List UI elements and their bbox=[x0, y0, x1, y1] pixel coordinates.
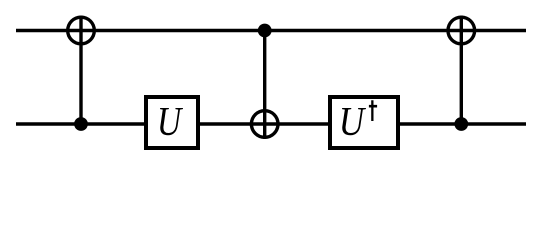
CNOT3 control dot (on q1) bbox=[454, 117, 468, 131]
gate U box bbox=[146, 97, 198, 148]
wire CNOT1 vertical connector bbox=[79, 16, 82, 124]
wire CNOT3 vertical connector bbox=[460, 16, 463, 124]
gate U-dagger label U bbox=[342, 108, 366, 135]
wire q1 (bottom qubit line) bbox=[16, 122, 526, 125]
CNOT1 target circle (oplus on q0) bbox=[68, 17, 95, 44]
CNOT1 control dot (on q1) bbox=[74, 117, 88, 131]
wire CNOT2 vertical connector bbox=[263, 31, 266, 139]
gate U label bbox=[160, 108, 183, 135]
CNOT2 control dot (on q0) bbox=[258, 24, 272, 38]
wire q0 (top qubit line) bbox=[16, 29, 526, 32]
CNOT2 target circle (oplus on q1) bbox=[251, 111, 278, 138]
CNOT3 target circle (oplus on q0) bbox=[448, 17, 475, 44]
gate U-dagger label dagger superscript bbox=[369, 100, 377, 121]
gate U-dagger box bbox=[330, 97, 398, 148]
